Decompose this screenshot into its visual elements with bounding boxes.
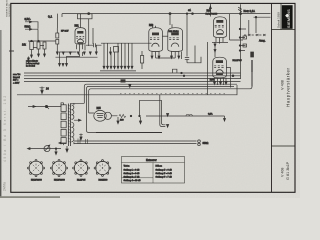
tube V1 leg arrows to connector [59, 64, 68, 67]
calibration dashed row with x marks [244, 34, 266, 36]
stub line top right [254, 17, 271, 33]
svg-text:Netzteil: Netzteil [13, 76, 20, 79]
arrows near corner [167, 114, 169, 128]
tube V4 envelope [213, 57, 227, 78]
svg-text:500Ω: 500Ω [25, 26, 31, 29]
wire from box down to tube V1 right [88, 19, 90, 46]
tap stubs [240, 29, 246, 51]
svg-text:Tiefen: Tiefen [124, 166, 131, 168]
svg-text:Höhen: Höhen [156, 166, 163, 168]
table column divider [152, 163, 154, 184]
wire top bus left drop [61, 14, 63, 17]
svg-text:0,5A: 0,5A [208, 113, 213, 116]
tube V3 bottom blob [217, 33, 224, 35]
svg-text:RV12P2000: RV12P2000 [206, 13, 219, 15]
tube V1 top lead [79, 14, 81, 28]
scan edge shadow left [0, 30, 2, 198]
tube V3 cathode arc [216, 30, 223, 34]
socket S1 [29, 161, 43, 175]
title column divider lower [272, 145, 296, 147]
ground arrow mid-left [41, 87, 43, 94]
main bus y81 [24, 80, 241, 82]
transformer secondary lines to output [74, 141, 197, 144]
tube V2b anode [171, 33, 179, 36]
right column taps from x240 [239, 28, 241, 30]
tap boxes [243, 36, 247, 39]
svg-text:RL12P35: RL12P35 [233, 60, 243, 62]
wire legs bus [156, 57, 176, 59]
svg-text:G 81 3b1P: G 81 3b1P [286, 161, 290, 180]
wire vertical x240 power [240, 4, 242, 79]
arrowhead left [28, 148, 31, 150]
table bottom cell divider [122, 177, 154, 179]
small tube inner circle [104, 112, 111, 119]
zigzag resistor on line [119, 114, 126, 117]
svg-text:RG12D60: RG12D60 [99, 180, 109, 182]
wire h y43 mid [101, 42, 152, 44]
tube V1 bottom blob [78, 42, 84, 44]
svg-text:Stellung 3 = 7 dB: Stellung 3 = 7 dB [124, 176, 141, 179]
tube V1 legs [77, 44, 86, 51]
legs arrows [151, 56, 180, 59]
svg-text:RV12P2000: RV12P2000 [31, 180, 43, 182]
svg-text:RV12P2000: RV12P2000 [54, 180, 66, 182]
node dot on bus near box [88, 13, 90, 15]
wire drop from frame to tube V3 [209, 4, 211, 17]
wires tube V1 legs down [60, 52, 83, 64]
scan edge shadow bottom-left [0, 196, 60, 198]
tube V4 bottom blob [216, 73, 223, 75]
svg-text:600Ω: 600Ω [203, 142, 209, 145]
tube V2a anode [152, 33, 159, 36]
arrow on feed line [33, 106, 36, 108]
main bus y75.5 [24, 75, 241, 77]
dark line y131.5 [96, 132, 162, 134]
tube V2a grid [150, 38, 159, 40]
wire from small tubes [89, 113, 118, 116]
arrow tick on x210 drop [209, 6, 211, 9]
mid resistor box [114, 47, 119, 53]
tube V4 grid [214, 66, 223, 68]
svg-text:Rö2: Rö2 [149, 25, 154, 27]
main bus y72.5 [24, 72, 241, 74]
tube V2b cathode arc [171, 43, 179, 47]
node tick + label a1 [192, 13, 194, 15]
wire left of V4 x207.5 [207, 42, 209, 95]
transformer T1 core [69, 104, 71, 147]
tube V1 anode [77, 31, 83, 34]
logo black box (Siemens) [282, 5, 293, 29]
svg-text:V 408: V 408 [281, 168, 285, 177]
cluster resistor 2 [37, 42, 40, 49]
grid link between pair [162, 35, 167, 37]
title column divider under logo [272, 29, 296, 31]
svg-text:Ausg.: Ausg. [259, 40, 266, 43]
long line y90 to right riser [90, 89, 92, 91]
long line y118.5 right [146, 115, 225, 117]
table header divider [122, 162, 185, 164]
svg-text:Rö5: Rö5 [97, 108, 102, 110]
svg-text:SIEMENS: SIEMENS [286, 9, 291, 28]
tube V4 cathode arc [216, 70, 223, 74]
corner line y100 [140, 99, 162, 101]
connector baseline under V1 [56, 56, 98, 58]
socket S3 [74, 161, 87, 174]
paper background [0, 0, 300, 198]
tube V3 anode [216, 20, 223, 23]
tube V2a cathode arc [152, 43, 159, 47]
cathode corner link [173, 69, 177, 73]
svg-text:Stellung 2' = 3 dB: Stellung 2' = 3 dB [156, 172, 173, 175]
socket S4 [96, 161, 109, 174]
connector row arrowheads [103, 66, 133, 69]
svg-text:Schalt 1939: Schalt 1939 [276, 12, 280, 28]
svg-text:0,1: 0,1 [48, 15, 53, 19]
tube V4 anode [216, 60, 223, 63]
caps on secondary [78, 139, 88, 145]
potentiometer circle [44, 146, 50, 152]
cluster arrows to ground [31, 50, 33, 58]
wire x248.5 drop [248, 20, 250, 35]
svg-text:RL12P35: RL12P35 [77, 180, 86, 182]
input coupling cluster box [30, 42, 34, 50]
vertical x139 from y100 [139, 100, 141, 116]
wire top bus [62, 13, 271, 15]
resistor box on top bus [78, 14, 93, 19]
svg-text:zum Vst: zum Vst [13, 73, 21, 76]
tube V2b grid [169, 38, 179, 40]
transformer left winding sections [61, 105, 66, 112]
tube V2b envelope [168, 28, 183, 52]
node + ground [55, 148, 57, 150]
svg-text:498a / Bd 5 Verst. 162: 498a / Bd 5 Verst. 162 [3, 94, 7, 162]
tube V1 cathode [77, 39, 83, 42]
ground arrows below line [117, 117, 119, 124]
main bus y78.5 [24, 78, 241, 80]
output jack circles [198, 140, 201, 143]
tube V3 grid [215, 25, 224, 27]
tube V2a top cap [153, 24, 156, 27]
svg-text:Netz 0,1A: Netz 0,1A [244, 9, 256, 13]
big node dot [45, 105, 47, 107]
wire right of V4 [226, 68, 230, 88]
svg-text:Stellung 4 = 10 dB: Stellung 4 = 10 dB [124, 179, 142, 182]
tube V2a envelope [149, 28, 163, 52]
tube V1 envelope [75, 28, 86, 45]
svg-text:24V =: 24V = [13, 80, 19, 82]
border frame [11, 3, 295, 192]
title column separator [271, 4, 273, 193]
nested corner bundle down [71, 84, 238, 103]
svg-text:Rö3: Rö3 [207, 10, 212, 13]
logo sub-cell divider [280, 4, 282, 30]
svg-text:Rö1: Rö1 [75, 26, 80, 28]
frame tick left [9, 50, 14, 52]
cluster wires [28, 41, 56, 48]
small tube Gl ellipse [94, 110, 106, 121]
leg arrow row under V1 [56, 52, 97, 55]
transformer left lead bottom [59, 142, 66, 144]
switch blob on bus [121, 79, 126, 82]
svg-text:V 408: V 408 [280, 80, 284, 90]
node dot right [232, 75, 234, 77]
resistors left of V1 [56, 33, 59, 38]
wire input to grid cluster [32, 22, 38, 29]
lower-left line y148.5 [30, 148, 61, 150]
node dot [169, 13, 171, 15]
wire right of V3 [230, 14, 244, 40]
svg-text:+ 220V: + 220V [13, 82, 20, 84]
arrow below blob [129, 84, 131, 87]
table Entzerrer outer [122, 157, 185, 184]
svg-text:im Gestell: im Gestell [26, 65, 35, 68]
lower-left feed line y106.5 [28, 103, 64, 107]
svg-text:Stellung 1 = 0 dB: Stellung 1 = 0 dB [124, 169, 141, 172]
resistor to right of row [141, 56, 144, 64]
tube V3 envelope [214, 17, 227, 38]
arrow before note text [28, 57, 30, 61]
cluster resistor 3 [43, 42, 46, 49]
transformer right winding coils [72, 105, 74, 119]
wire drop x187 [186, 14, 188, 57]
wires dropping to connector row [104, 43, 132, 66]
wire V3 to V4 with arrows [214, 42, 216, 57]
svg-text:Hauptverstärker: Hauptverstärker [285, 68, 290, 107]
node dots on line [130, 115, 132, 117]
input terminal arrow 2 [25, 28, 32, 30]
fuse mark near top of x240 [238, 7, 242, 11]
connector row base line [100, 70, 136, 72]
transformer ground [66, 146, 68, 152]
choke on line [186, 114, 192, 116]
svg-text:WERNERWERK: WERNERWERK [9, 3, 11, 17]
ground at transformer corner [80, 134, 82, 140]
svg-text:0,5V~: 0,5V~ [25, 18, 32, 21]
wire y60 to right [187, 57, 201, 63]
coupling cap after V1 [86, 43, 102, 47]
end stub [224, 116, 226, 121]
transformer tap arrow [74, 119, 81, 121]
node dots on bus near pair [181, 72, 183, 74]
node dot x240 on bus [240, 13, 242, 15]
socket S2 [52, 161, 66, 175]
node dot [186, 13, 188, 15]
wire drop to tube pair V2a [169, 14, 171, 25]
svg-text:24/Ma: 24/Ma [3, 182, 7, 191]
tube pair legs [152, 52, 182, 60]
dark blob component [251, 52, 254, 57]
svg-text:Entzerrer: Entzerrer [146, 158, 157, 162]
cap at x187 bottom [185, 58, 189, 63]
winding leads [64, 103, 74, 145]
wire input drop [37, 29, 39, 41]
svg-text:Rö2 RV12: Rö2 RV12 [169, 31, 180, 33]
tube V2b top cap [171, 24, 173, 27]
svg-text:Stellung 3' = 7 dB: Stellung 3' = 7 dB [156, 176, 173, 179]
tube V4 leg arrows [214, 82, 228, 85]
tube V3 legs [216, 38, 223, 44]
long line y94.5 dashed shield [17, 85, 237, 95]
tube V4 legs [215, 78, 227, 85]
svg-text:Stellung 2 = 3 dB: Stellung 2 = 3 dB [124, 172, 141, 175]
tube V1 grid dashes [76, 36, 84, 38]
svg-text:NF 2Ω7: NF 2Ω7 [61, 31, 69, 33]
wire vertical x57.5 from bus [57, 14, 59, 28]
vertical pair x159.5 x161.5 [160, 95, 166, 127]
baseline under V3 legs [212, 42, 228, 44]
hatched shield vertical right [251, 60, 253, 87]
input terminal arrow 1 [25, 21, 32, 23]
verticals right of V1 [93, 28, 96, 53]
wire left col [56, 28, 58, 52]
svg-text:Stellung 1' = 0 dB: Stellung 1' = 0 dB [156, 169, 173, 172]
wire x195 drop [194, 46, 196, 63]
node dots cluster [31, 40, 33, 42]
mid cluster arrows [110, 47, 112, 55]
wire from resistor [141, 51, 143, 69]
